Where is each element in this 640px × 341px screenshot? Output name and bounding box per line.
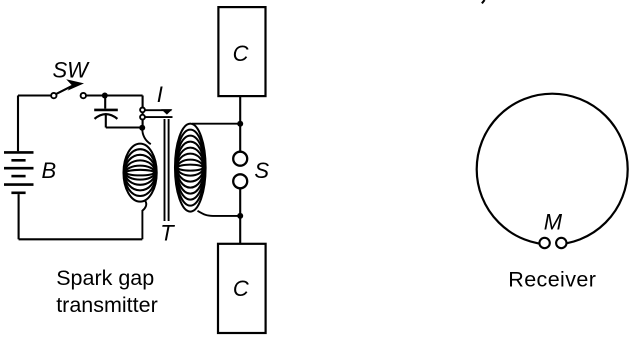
wire: spark gap to bottom plate	[239, 188, 241, 243]
interrupter I top terminal	[140, 108, 145, 113]
wire: switch to interrupter top	[86, 94, 143, 96]
switch SW right terminal	[81, 93, 86, 98]
wire: secondary coil top lead to spark gap column	[192, 123, 240, 125]
wire: primary coil top lead	[142, 128, 151, 144]
interrupter I contact triangle	[161, 109, 172, 114]
svg-text:SW: SW	[53, 58, 91, 83]
wire: capacitor to interrupter bottom junction	[106, 126, 142, 128]
wire: battery bottom lead	[18, 194, 20, 239]
transformer core	[165, 119, 169, 221]
interrupter I bottom terminal	[140, 115, 145, 120]
spark gap S top ball	[233, 152, 247, 166]
wire: top plate to spark gap	[239, 96, 241, 152]
wire: capacitor bottom lead	[105, 115, 107, 128]
interrupter I top bar	[145, 109, 172, 111]
gap in receiver loop	[547, 237, 559, 250]
svg-text:I: I	[157, 82, 163, 107]
svg-text:transmitter: transmitter	[56, 293, 158, 317]
stray tick mark at top edge	[482, 0, 485, 3]
wire: capacitor top lead	[104, 96, 106, 109]
node: junction above capacitor	[102, 93, 108, 99]
wire: top-left from battery corner to switch left terminal	[18, 94, 51, 96]
interrupter I bottom bar	[145, 116, 173, 118]
switch SW arrowhead	[66, 79, 84, 90]
node: junction top of spark column	[237, 121, 243, 127]
spark gap S bottom ball	[233, 174, 247, 188]
svg-text:C: C	[233, 41, 249, 66]
svg-text:Spark gap: Spark gap	[56, 266, 154, 290]
battery B	[4, 152, 34, 192]
svg-text:Receiver: Receiver	[508, 267, 596, 291]
switch SW blade	[57, 86, 72, 94]
svg-text:T: T	[160, 220, 175, 245]
switch SW left terminal	[51, 93, 56, 98]
node: junction bottom of spark column	[237, 213, 243, 219]
capacitor plate C (top antenna plate)	[218, 7, 265, 96]
receiver gap right ball M	[556, 238, 566, 248]
node: junction below interrupter	[139, 125, 145, 131]
transformer primary coil	[124, 144, 157, 202]
receiver loop antenna	[477, 94, 628, 245]
capacitor plate C (bottom antenna plate)	[218, 244, 266, 333]
svg-text:M: M	[544, 210, 563, 235]
wire: bottom return wire to primary coil	[19, 238, 143, 240]
transformer secondary coil	[175, 124, 206, 212]
capacitor curved bottom plate	[95, 114, 118, 119]
receiver gap left ball M	[539, 238, 549, 248]
wire: primary coil bottom lead	[142, 201, 146, 239]
svg-text:B: B	[42, 158, 57, 183]
wire: secondary coil bottom lead	[198, 211, 241, 216]
svg-text:S: S	[254, 158, 269, 183]
capacitor (across interrupter) top plate	[94, 109, 118, 112]
wire: vertical into interrupter	[142, 96, 144, 129]
wire: left vertical battery top lead	[17, 96, 19, 152]
svg-text:C: C	[233, 276, 249, 301]
